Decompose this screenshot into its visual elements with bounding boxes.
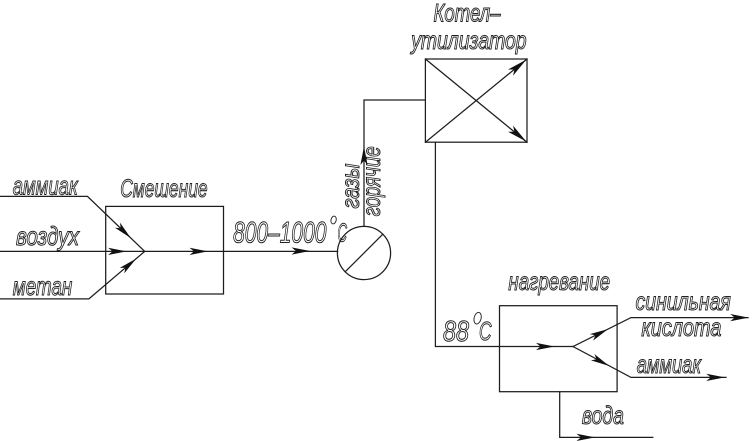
arrow hot gases up — [360, 147, 367, 166]
arrow before circle — [292, 247, 311, 254]
block waste-heat boiler box (Котел-утилизатор) — [425, 59, 527, 142]
arrow hydrocyanic acid end — [730, 314, 749, 321]
wire heater internal feed — [500, 346, 574, 348]
svg-text:800–1000: 800–1000 — [233, 217, 327, 250]
arrow ammonia diagonal — [115, 223, 131, 238]
block heater box (нагревание) — [500, 306, 618, 392]
arrow boiler diagonal up — [508, 60, 526, 76]
svg-text:синильная: синильная — [636, 288, 731, 316]
pump/blower circle — [337, 226, 390, 279]
svg-text:С: С — [338, 218, 348, 248]
svg-text:Смешение: Смешение — [120, 175, 207, 203]
boiler diagonal down-right — [425, 59, 527, 142]
svg-text:утилизатор: утилизатор — [410, 27, 527, 55]
svg-text:нагревание: нагревание — [508, 268, 610, 296]
label degree sup 0 (88) — [473, 312, 483, 325]
svg-text:вода: вода — [582, 402, 624, 430]
label degree sup 0 — [330, 216, 337, 225]
arrow ammonia out end — [706, 374, 725, 381]
wire hot gases riser — [364, 100, 425, 226]
wire lower branch ammonia out — [573, 347, 726, 378]
block mixer box (Смешение) — [106, 206, 224, 294]
svg-text:аммиак: аммиак — [13, 171, 79, 201]
svg-text:Котел–: Котел– — [434, 0, 502, 27]
arrow boiler diagonal down — [508, 126, 526, 142]
svg-text:воздух: воздух — [16, 221, 80, 251]
arrow mixer outlet — [190, 248, 209, 255]
wire boiler outlet drop — [435, 142, 499, 346]
arrow upper branch — [590, 329, 608, 341]
arrow air inlet — [108, 248, 127, 255]
arrow methane diagonal — [120, 259, 136, 274]
arrow water out — [577, 434, 596, 441]
svg-text:метан: метан — [13, 271, 73, 301]
svg-text:С: С — [479, 316, 492, 346]
wire ammonia inlet — [0, 196, 145, 251]
svg-text:горячие: горячие — [358, 146, 386, 216]
wire methane inlet — [0, 251, 145, 299]
boiler diagonal up-right — [425, 59, 527, 142]
svg-text:88: 88 — [443, 316, 469, 348]
svg-text:аммиак: аммиак — [637, 351, 702, 379]
wire water outlet — [560, 392, 653, 438]
wire air inlet main line — [0, 250, 338, 252]
arrow heater inlet — [536, 343, 555, 350]
arrow lower branch — [591, 354, 609, 366]
wire upper branch hydrocyanic acid — [573, 318, 748, 347]
circle diagonal — [345, 234, 383, 272]
svg-text:кислота: кислота — [641, 314, 721, 342]
